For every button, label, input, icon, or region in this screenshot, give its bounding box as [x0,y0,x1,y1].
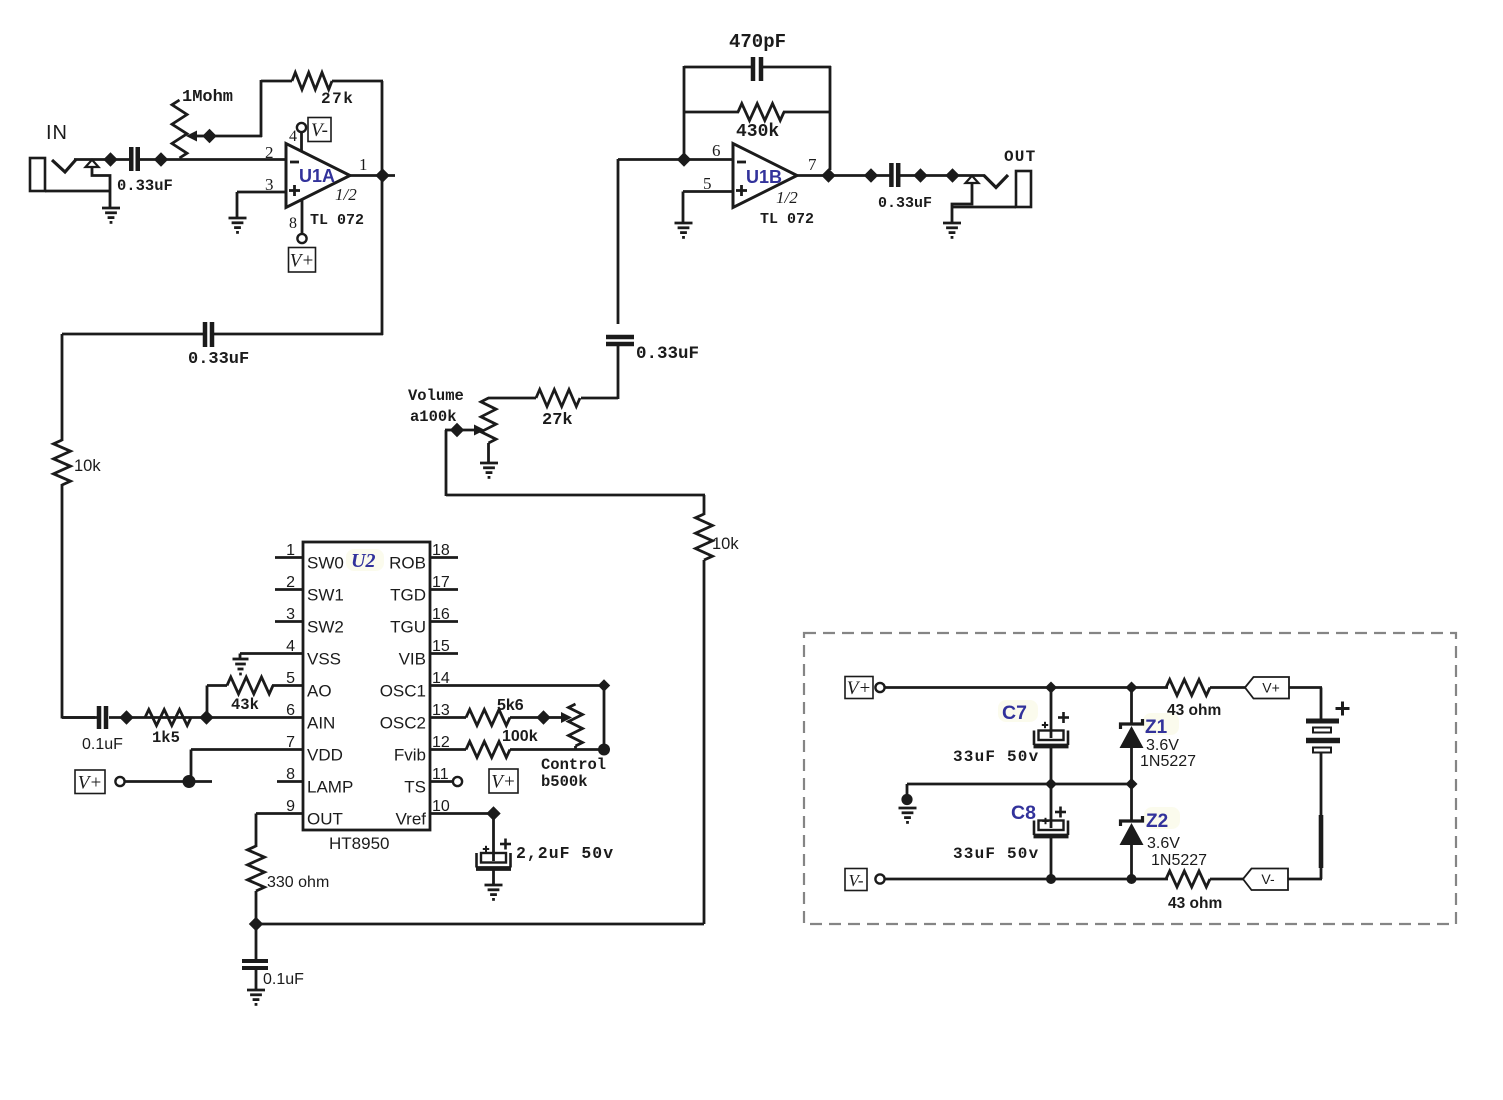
resistor R9 1k5 [145,710,191,726]
svg-text:SW1: SW1 [307,586,344,605]
pin 8 terminal (U1A) [297,234,306,243]
wire V+ rail [125,780,213,783]
U2 pin label OSC2 [380,714,426,733]
svg-text:0.33uF: 0.33uF [188,350,249,369]
OUT label [1004,148,1036,166]
junction dot (psu ground) [901,794,912,805]
svg-text:LAMP: LAMP [307,778,353,797]
U2 pin 15 number [432,638,450,655]
node (C4-R9) [119,710,133,724]
U2 pin 12 number [432,734,450,751]
U2 pin 18 stub [430,556,458,559]
wire LAMP stub [277,780,303,783]
svg-text:b500k: b500k [541,773,588,791]
U2 pin 3 stub [275,620,303,623]
wire R14 to V+ tag [1210,686,1246,689]
plus signs (C6) [483,839,511,853]
svg-text:10k: 10k [74,457,101,475]
U2 pin label TS [404,778,426,797]
svg-text:V-: V- [1261,871,1275,887]
svg-text:V-: V- [311,120,328,141]
ground (psu mid) [899,808,917,822]
U2 pin 2 number [286,574,295,591]
op-amp U1A [286,144,350,208]
U2 pin label Vref [395,810,426,829]
wire control pot bottom [574,746,577,750]
wire C1 to U1A pin2 [140,158,286,161]
resistor R7 10k [696,514,713,560]
wire VDD [191,750,303,783]
plus signs (C7) [1042,712,1069,728]
svg-text:a100k: a100k [410,408,457,426]
svg-text:3.6V: 3.6V [1147,835,1180,852]
label TL 072 (U1A) [310,212,364,229]
wire bottom rail [256,923,704,926]
wire TS stub [430,780,452,783]
svg-text:V+: V+ [78,772,102,793]
label U1A [299,166,335,186]
wire volume pot to ground [487,443,490,464]
op-amp U1B [733,144,797,208]
svg-text:3: 3 [286,606,295,623]
label 43 ohm (R15) [1168,895,1222,912]
label Volume [408,387,464,405]
wire C3 down to R5 [581,346,618,399]
resistor R4 430k [738,104,784,121]
wire U1A output [350,174,395,177]
wire 43k left to AIN node [207,686,227,719]
svg-text:4: 4 [289,128,297,145]
svg-text:1N5227: 1N5227 [1140,753,1196,770]
svg-text:2: 2 [286,574,295,591]
U2 pin label AIN [307,714,335,733]
label 1N5227 (Z1) [1140,753,1196,770]
label 3.6V (Z1) [1146,737,1179,754]
svg-text:43 ohm: 43 ohm [1168,895,1222,912]
node (control wiper) [536,710,550,724]
terminal (psu V+) [875,683,884,692]
svg-text:V+: V+ [491,772,515,793]
wire AIN row [109,716,303,719]
svg-text:1/2: 1/2 [335,185,357,204]
IN label [46,122,68,144]
wire OSC2 stub [430,716,466,719]
U2 pin label SW1 [307,586,344,605]
V- supply box (psu in) [845,869,867,891]
U2 pin label SW2 [307,618,344,637]
node (out wire c) [945,168,959,182]
svg-text:AIN: AIN [307,714,335,733]
label 10k (R3) [74,457,101,475]
ground (U1A pin3) [229,218,247,232]
node (Vref) [486,806,500,820]
U2 pin 3 number [286,606,295,623]
U2 pin label VSS [307,650,341,669]
svg-text:430k: 430k [736,122,779,142]
U2 pin 17 number [432,574,450,591]
wire mid rail to ground [906,784,909,795]
svg-text:OUT: OUT [307,810,343,829]
junction dot (Fvib-OSC1) [598,744,610,756]
pin 4 wire (U1A) [300,132,303,152]
node (volume wiper) [450,423,464,437]
label 33uF 50v (C8) [953,845,1039,863]
svg-text:1/2: 1/2 [776,188,798,207]
svg-text:TL 072: TL 072 [310,212,364,229]
U2 pin label Fvib [394,746,426,765]
label 0.1uF (C5) [263,971,304,988]
label C8 [1011,802,1036,824]
resistor R2 27k [292,73,332,90]
label 0.33uF (C2) [188,350,249,369]
label 1/2 (U1A) [335,185,357,204]
node (AIN junction) [199,710,213,724]
svg-text:Z2: Z2 [1146,811,1168,832]
label C7 [1002,702,1027,724]
svg-text:10k: 10k [712,535,739,553]
node (C1-R1) [154,152,168,166]
wire R15 to V- tag [1210,878,1244,881]
svg-text:0.33uF: 0.33uF [636,344,699,364]
ground (U1B pin5) [675,223,693,237]
terminal (TS) [453,777,462,786]
svg-text:1N5227: 1N5227 [1151,852,1207,869]
label Z2 [1146,811,1168,832]
svg-text:SW0: SW0 [307,554,344,573]
ground (volume pot) [480,463,498,477]
node (out wire a) [864,168,878,182]
resistor R5 27k [536,390,580,407]
U2 pin label TGD [390,586,426,605]
input jack J1 [30,158,110,191]
pin 2 label (U1A) [265,143,274,162]
svg-text:C8: C8 [1011,802,1036,824]
wire R10 to bottom node [255,891,258,925]
wire left column upper [61,334,64,441]
IC U2 body [303,542,430,830]
svg-text:C7: C7 [1002,702,1027,724]
label 470pF (C9) [729,31,786,53]
resistor R14 43 ohm [1166,680,1210,696]
pin 4 label (U1A) [289,128,297,145]
svg-text:100k: 100k [502,728,538,745]
U2 pin 17 stub [430,588,458,591]
svg-text:3.6V: 3.6V [1146,737,1179,754]
svg-text:ROB: ROB [389,554,426,573]
U2 pin label TGU [390,618,426,637]
jack J2 sleeve wire [952,183,972,224]
wire OSC1 down [603,686,606,751]
wire U1B output [797,174,890,177]
svg-text:470pF: 470pF [729,31,786,53]
svg-text:OUT: OUT [1004,148,1036,166]
svg-text:SW2: SW2 [307,618,344,637]
U2 pin 15 stub [430,652,458,655]
label Z1 [1145,717,1168,738]
U2 pin 5 number [286,670,295,687]
wire C8 bottom [1050,837,1053,879]
wire 470pF loop [684,66,831,170]
V+ supply box (TS) [489,769,518,793]
junction dot (C8 bottom) [1046,874,1056,884]
svg-text:1: 1 [359,155,368,174]
U2 pin 8 number [286,766,295,783]
wire C8 top [1050,784,1053,828]
svg-text:OSC1: OSC1 [380,682,426,701]
capacitor C6 2.2uF [476,853,511,869]
svg-text:16: 16 [432,606,450,623]
wire 100k to node [510,748,604,751]
potentiometer R13 Control b500k [569,704,583,746]
ground (output jack) [943,223,961,237]
capacitor C1 0.33uF [131,147,138,171]
capacitor C8 33uF [1034,821,1069,837]
V- output tag [1243,869,1288,891]
label 0.33uF (C1) [117,177,173,195]
svg-text:1k5: 1k5 [152,729,180,747]
label 27k (R5) [542,411,573,430]
svg-text:V-: V- [848,871,863,890]
U2 pin 1 number [286,542,295,559]
label b500k [541,773,588,791]
label 1Mohm [182,88,233,107]
junction diamond (OSC1) [598,679,610,691]
wire C4 left [62,716,98,719]
svg-text:0.33uF: 0.33uF [878,195,932,212]
wire VSS to ground [240,654,303,660]
label 43k (R8) [231,696,259,714]
svg-text:U2: U2 [351,550,375,572]
label 5k6 (R11) [497,697,524,714]
node (out wire b) [913,168,927,182]
wire V+ tag to battery [1289,688,1322,720]
node (U1B pin7 out) [821,168,835,182]
ground (C6) [485,885,503,899]
V+ supply box (U1A pin8) [289,248,316,273]
U2 pin 7 number [286,734,295,751]
junction diamond (Z1 top) [1126,682,1138,694]
svg-text:7: 7 [808,155,817,174]
label 0.1uF (C4) [82,736,123,753]
label 10k (R7) [712,535,739,553]
pin 8 label (U1A) [289,215,297,232]
label 0.33uF (C10) [878,195,932,212]
wire Fvib stub [430,748,466,751]
pin 8 wire (U1A) [301,199,304,234]
pin 4 terminal (U1A) [297,123,306,132]
svg-text:18: 18 [432,542,450,559]
svg-text:V+: V+ [290,250,314,271]
wire jack tip to C1 [74,158,129,161]
svg-text:VDD: VDD [307,746,343,765]
U2 pin 6 number [286,702,295,719]
resistor R10 330 ohm [248,846,265,891]
U2 pin 9 number [286,798,295,815]
plus signs (C8) [1042,807,1066,825]
wire node to C5 [255,924,258,960]
svg-text:TGU: TGU [390,618,426,637]
U2 pin 13 number [432,702,450,719]
svg-text:1: 1 [286,542,295,559]
node (jack-C1) [103,152,117,166]
svg-text:U1B: U1B [746,167,782,187]
svg-text:27k: 27k [542,411,573,430]
capacitor C5 0.1uF [242,961,268,968]
node (U1A output) [375,168,389,182]
wire U1B input column [617,159,620,324]
svg-text:Fvib: Fvib [394,746,426,765]
svg-text:17: 17 [432,574,450,591]
label HT8950 [329,834,389,853]
node (U1B pin6) [677,152,691,166]
label 27k (R2) [321,90,354,108]
svg-text:43 ohm: 43 ohm [1167,702,1221,719]
label 3.6V (Z2) [1147,835,1180,852]
svg-text:HT8950: HT8950 [329,834,389,853]
wire psu bottom rail [885,878,1169,881]
svg-text:5k6: 5k6 [497,697,524,714]
label 330 ohm (R10) [267,874,329,891]
capacitor C10 0.33uF [891,163,898,187]
plus sign (battery) [1336,702,1350,716]
label Control [541,756,606,774]
svg-text:6: 6 [712,141,721,160]
label 100k (R12) [502,728,538,745]
pin 5 label (U1B) [703,174,712,193]
wire OSC1 [430,684,604,687]
zener Z2 3.6V 1N5227 [1120,784,1144,879]
scan smudges (background tint) [346,549,1180,829]
zener Z1 3.6V 1N5227 [1120,688,1144,785]
capacitor C3 0.33uF [606,337,634,344]
svg-text:330 ohm: 330 ohm [267,874,329,891]
svg-text:V+: V+ [847,678,871,699]
junction diamond (C7 bottom) [1045,778,1057,790]
svg-text:Vref: Vref [395,810,426,829]
V+ supply box (VDD) [75,770,105,794]
wire U1B pin6 input [618,158,733,161]
wire R7 down to bottom rail [703,560,706,924]
U2 pin 14 number [432,670,450,687]
pin 1 label (U1A) [359,155,368,174]
resistor R15 43 ohm [1166,871,1210,887]
junction dot (VDD-V+) [183,775,196,788]
label 43 ohm (R14) [1167,702,1221,719]
svg-text:27k: 27k [321,90,354,108]
svg-text:33uF 50v: 33uF 50v [953,748,1039,766]
U2 pin label OUT [307,810,343,829]
label 1/2 (U1B) [776,188,798,207]
wire psu mid rail [907,783,1132,786]
svg-text:0.1uF: 0.1uF [263,971,304,988]
svg-text:0.33uF: 0.33uF [117,177,173,195]
label 1k5 (R9) [152,729,180,747]
ground (C5) [247,990,265,1004]
label 1N5227 (Z2) [1151,852,1207,869]
wire volume wiper run [445,430,705,496]
resistor R8 43k [227,677,273,694]
U2 pin 16 number [432,606,450,623]
svg-text:OSC2: OSC2 [380,714,426,733]
svg-text:Volume: Volume [408,387,464,405]
wire psu top rail [885,686,1169,689]
resistor R3 10k [54,440,71,485]
svg-text:2: 2 [265,143,274,162]
jack J1 tip terminal [86,160,99,167]
U2 pin 16 stub [430,620,458,623]
ground (input jack) [102,208,120,222]
ground (VSS) [233,659,249,674]
pin 6 label (U1B) [712,141,721,160]
wire U1A pin3 [237,192,286,218]
label a100k [410,408,457,426]
svg-text:AO: AO [307,682,332,701]
capacitor C7 33uF [1034,731,1069,747]
jack J1 sleeve wire [92,167,110,208]
svg-text:Z1: Z1 [1145,717,1168,738]
wire battery bottom [1320,753,1323,880]
U2 pin label AO [307,682,332,701]
svg-text:33uF 50v: 33uF 50v [953,845,1039,863]
junction diamond (C7 top) [1045,682,1057,694]
V+ output tag [1245,677,1289,699]
U2 pin 4 number [286,638,295,655]
svg-text:VIB: VIB [399,650,426,669]
wire 5k6 to wiper [510,716,545,719]
U2 pin label VDD [307,746,343,765]
wire left column lower [62,484,95,719]
pin 3 label (U1A) [265,175,274,194]
U2 pin label VIB [399,650,426,669]
U2 pin label LAMP [307,778,353,797]
terminal (V+ left) [115,777,124,786]
svg-text:0.1uF: 0.1uF [82,736,123,753]
wire down to R7 [703,495,706,515]
U2 pin label SW0 [307,554,344,573]
node (R1 wiper) [202,129,216,143]
label TL 072 (U1B) [760,211,814,228]
wire R5 to volume pot [488,397,536,400]
U2 pin label ROB [389,554,426,573]
svg-text:2,2uF 50v: 2,2uF 50v [516,844,614,863]
wire V- tag to battery [1288,878,1322,881]
wire 430k loop [684,111,830,114]
V- supply box (U1A pin4) [308,118,331,142]
wire C6 to ground [492,870,495,886]
potentiometer R6 Volume a100k [457,398,496,443]
potentiometer R1 1Mohm [172,100,210,158]
jack J2 tip terminal [966,176,979,183]
wire C2 horizontal [62,333,383,336]
U2 pin 11 number [432,766,449,783]
power supply dashed border [804,633,1456,924]
resistor R12 100k [466,742,510,758]
svg-text:Control: Control [541,756,606,774]
control pot wiper arrow [549,712,572,723]
label 33uF 50v (C7) [953,748,1039,766]
svg-text:TS: TS [404,778,426,797]
wire U1B pin5 [683,192,733,224]
V+ supply box (psu in) [845,677,873,700]
U2 pin label OSC1 [380,682,426,701]
wire R2 to output node [332,81,383,176]
wire Vref down to C6 [492,814,495,862]
svg-text:TL 072: TL 072 [760,211,814,228]
wire C7 bottom [1050,747,1053,784]
capacitor C2 0.33uF [205,322,212,347]
U2 pin 1 stub [275,556,303,559]
label 0.33uF (C3) [636,344,699,364]
